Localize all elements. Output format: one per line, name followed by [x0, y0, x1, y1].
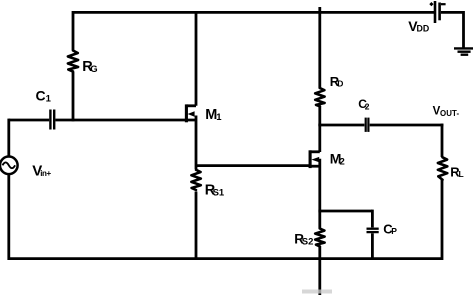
svg-text:2: 2	[340, 156, 345, 167]
M2 source stub	[310, 165, 320, 168]
resistor RD	[315, 88, 324, 106]
wire M2 drain vertical	[318, 124, 321, 152]
label Vin+	[32, 163, 51, 180]
label RD	[330, 74, 344, 89]
wire C2 line left	[318, 124, 364, 127]
wire input drop upper	[7, 119, 10, 157]
M1 drain stub	[186, 104, 196, 107]
wire corner down to ground	[462, 11, 465, 48]
wire C2 line right	[370, 124, 444, 127]
label RG	[82, 59, 97, 75]
wire RD lower	[318, 106, 321, 126]
label M1	[205, 107, 222, 123]
wire bottom rail	[9, 257, 442, 260]
source Vin sine	[3, 162, 16, 168]
transistor M2	[310, 150, 320, 168]
label C1	[36, 88, 52, 105]
label VDD	[408, 18, 429, 34]
label M2	[330, 151, 345, 168]
wire RS1 to bottom rail	[195, 192, 198, 261]
resistor RD upper wire	[318, 7, 321, 88]
transistor M1	[186, 104, 196, 122]
wire CP stub horizontal	[318, 210, 372, 213]
wire battery to corner	[441, 11, 464, 14]
wire gate line left	[9, 119, 49, 122]
wire interstage (M1 source to M2 gate)	[196, 164, 311, 167]
resistor RS2	[315, 229, 324, 247]
wire M1 source vertical	[195, 116, 198, 170]
source Vin circle	[0, 157, 18, 175]
wire top rail	[73, 11, 435, 14]
wire RG branch lower	[72, 72, 75, 121]
svg-text:1: 1	[216, 112, 222, 123]
wire Vout drop	[441, 124, 444, 157]
svg-text:2: 2	[365, 102, 370, 112]
wire M2 source vertical	[318, 159, 321, 229]
label C2	[358, 97, 370, 112]
ground symbol	[454, 48, 473, 54]
label VOUT-	[433, 106, 460, 119]
resistor RG	[68, 51, 78, 72]
wire input drop lower	[7, 174, 10, 260]
svg-text:in+: in+	[40, 169, 51, 178]
svg-text:S2: S2	[302, 236, 314, 247]
label RS1	[205, 183, 225, 199]
svg-text:C: C	[36, 88, 46, 104]
wire gate line right	[55, 119, 196, 122]
svg-text:DD: DD	[417, 24, 430, 34]
battery plus marker	[429, 2, 433, 6]
svg-text:1: 1	[46, 93, 52, 104]
faint smudge bottom	[302, 290, 332, 294]
capacitor C2	[366, 118, 369, 132]
svg-text:P: P	[391, 226, 397, 236]
wire RS2 to bottom edge	[318, 246, 321, 295]
M1 gate/channel bar	[185, 104, 188, 122]
wire RG branch upper	[72, 11, 75, 50]
wire CP upper vertical	[371, 210, 374, 228]
M2 gate/channel bar	[309, 150, 312, 168]
wire RL to bottom rail	[441, 180, 444, 261]
label CP	[383, 222, 397, 237]
capacitor CP	[367, 229, 379, 232]
wire CP lower vertical	[371, 233, 374, 260]
svg-text:L: L	[459, 169, 464, 179]
M1 body arrow head	[188, 111, 195, 116]
svg-text:S1: S1	[213, 188, 225, 199]
battery VDD positive plate	[434, 1, 437, 23]
label RS2	[294, 231, 313, 247]
capacitor C1	[50, 110, 54, 130]
label RL	[450, 164, 463, 179]
svg-text:D: D	[337, 78, 343, 88]
M2 body arrow head	[311, 157, 319, 162]
svg-text:OUT-: OUT-	[440, 109, 460, 118]
battery VDD negative plate	[438, 3, 441, 21]
svg-text:G: G	[90, 64, 97, 75]
resistor RL	[438, 157, 447, 180]
wire M1 drain vertical	[195, 11, 198, 106]
M2 drain stub	[310, 150, 320, 153]
battery minus marker	[441, 3, 446, 5]
resistor RS1	[191, 170, 200, 190]
